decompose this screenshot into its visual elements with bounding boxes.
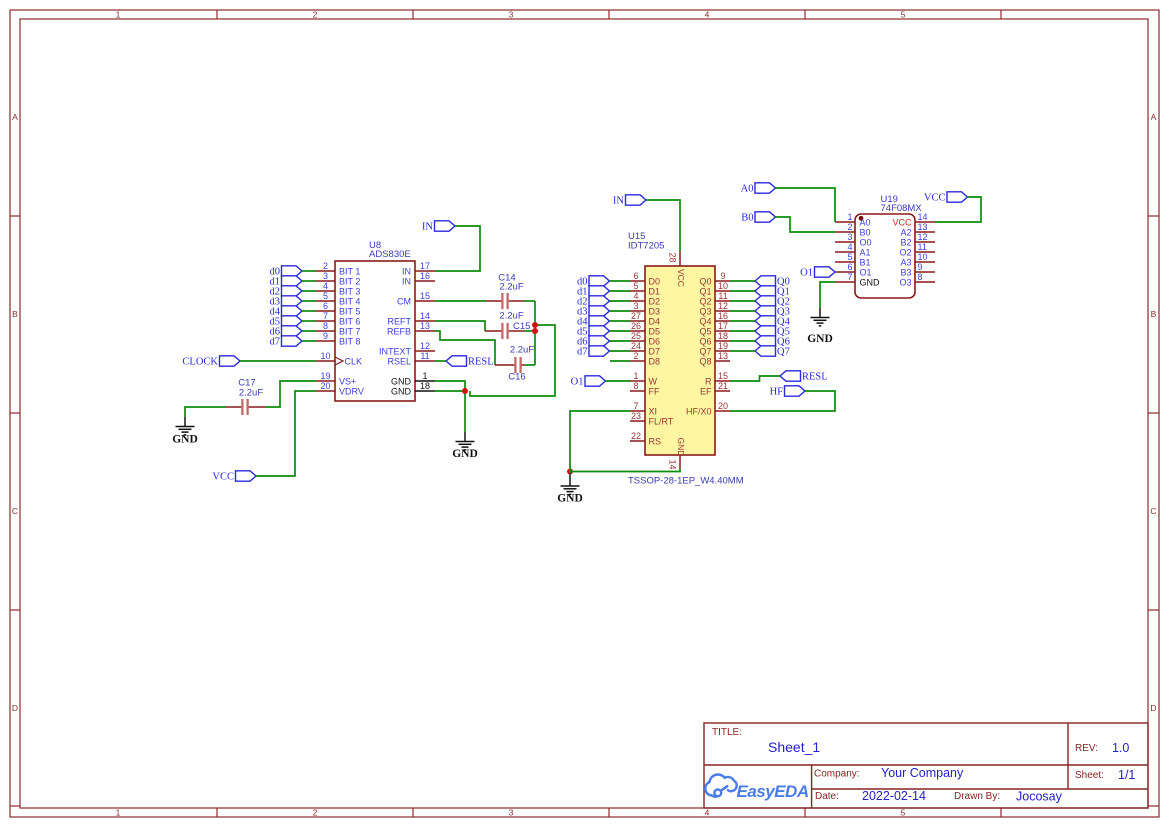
net flag VCC (left) <box>212 471 256 483</box>
svg-text:D5: D5 <box>649 326 661 336</box>
net flag B0 <box>741 212 775 224</box>
svg-text:17: 17 <box>718 321 728 331</box>
ground symbol GND (U19) <box>807 308 833 345</box>
svg-text:RESL: RESL <box>468 357 494 368</box>
net flag d1 (U8) <box>270 276 303 288</box>
svg-text:d7: d7 <box>577 347 588 358</box>
wire C17 left to ground <box>185 407 226 417</box>
U8 pin 10 CLK <box>316 351 362 366</box>
svg-text:RSEL: RSEL <box>387 356 411 366</box>
svg-text:GND: GND <box>391 376 412 386</box>
capacitor C17 <box>226 399 266 415</box>
svg-text:REFT: REFT <box>388 316 412 326</box>
svg-text:BIT 2: BIT 2 <box>339 276 360 286</box>
svg-text:EasyEDA: EasyEDA <box>737 782 809 801</box>
U8 pin 6 BIT 5 <box>316 301 360 316</box>
vertical wire joining C14/C15/C16 <box>534 301 536 365</box>
svg-text:12: 12 <box>918 232 928 242</box>
svg-text:23: 23 <box>631 411 641 421</box>
net flag A0 <box>741 183 776 195</box>
svg-text:14: 14 <box>420 311 430 321</box>
U15 pin 24 D7 <box>630 341 660 356</box>
U15 pin 9 Q0 <box>699 271 730 286</box>
svg-text:GND: GND <box>452 448 478 460</box>
U15 pin 25 D6 <box>630 331 660 346</box>
svg-text:7: 7 <box>633 401 638 411</box>
U15 pin 21 EF <box>700 381 730 396</box>
svg-text:FF: FF <box>649 386 660 396</box>
U8 pin 20 VDRV <box>316 381 364 396</box>
U15 pin 4 D2 <box>630 291 660 306</box>
svg-text:9: 9 <box>918 262 923 272</box>
U19 pin 10 A3 <box>900 252 935 267</box>
net flag Q1 <box>755 286 790 298</box>
U19 pin 4 A1 <box>835 242 871 257</box>
svg-text:18: 18 <box>718 331 728 341</box>
wire O1 to U15 W <box>606 380 631 382</box>
net flag d6 (U15) <box>577 336 610 348</box>
svg-text:HF: HF <box>770 387 784 398</box>
U15 pin 18 Q6 <box>699 331 730 346</box>
net flag HF <box>770 386 805 398</box>
U15 pin 15 R <box>705 371 730 386</box>
svg-text:C15: C15 <box>513 321 530 332</box>
svg-text:Q7: Q7 <box>777 347 790 358</box>
svg-text:B: B <box>12 309 18 319</box>
U8 pin 8 BIT 7 <box>316 321 360 336</box>
wires d0-d7 to U8 <box>302 271 316 341</box>
svg-text:13: 13 <box>718 351 728 361</box>
U19 pin 9 B3 <box>900 262 935 277</box>
svg-text:20: 20 <box>718 401 728 411</box>
net flag d5 (U8) <box>270 316 303 328</box>
net flag CLOCK <box>182 356 240 368</box>
net flag d0 (U15) <box>577 276 610 288</box>
net flag d2 (U15) <box>577 296 610 308</box>
svg-text:17: 17 <box>420 261 430 271</box>
net flag Q7 <box>755 346 790 358</box>
svg-text:D: D <box>1150 703 1156 713</box>
svg-text:D1: D1 <box>649 286 661 296</box>
wire C15 right to node <box>525 330 536 332</box>
svg-text:VCC: VCC <box>676 269 686 287</box>
svg-text:IN: IN <box>402 276 411 286</box>
svg-text:O1: O1 <box>800 268 813 279</box>
svg-text:D: D <box>12 703 18 713</box>
U8 pin 4 BIT 3 <box>316 281 360 296</box>
ground symbol GND (C17) <box>172 417 198 445</box>
svg-text:11: 11 <box>918 242 927 252</box>
svg-text:27: 27 <box>631 311 641 321</box>
net flag O1 (U15) <box>571 376 606 388</box>
svg-text:O1: O1 <box>860 267 872 277</box>
svg-text:Company:: Company: <box>814 769 860 780</box>
wire U15 R to RESL flag <box>730 376 780 381</box>
U19 pin 5 B1 <box>835 252 871 267</box>
U8 pin 12 INTEXT <box>379 341 435 356</box>
svg-text:GND: GND <box>860 277 881 287</box>
svg-text:25: 25 <box>631 331 641 341</box>
junction at 570,471.5 <box>567 469 573 475</box>
svg-text:4: 4 <box>633 291 638 301</box>
net flag d0 (U8) <box>270 266 303 278</box>
net flag Q4 <box>755 316 791 328</box>
svg-text:1: 1 <box>116 9 121 19</box>
net flag d7 (U15) <box>577 346 610 358</box>
svg-text:13: 13 <box>420 321 430 331</box>
svg-text:B3: B3 <box>900 267 911 277</box>
U15 pin 2 D8 <box>630 351 660 366</box>
svg-text:6: 6 <box>633 271 638 281</box>
svg-text:15: 15 <box>718 371 728 381</box>
svg-text:10: 10 <box>718 281 728 291</box>
svg-text:A2: A2 <box>900 227 911 237</box>
U8 pin 9 BIT 8 <box>316 331 360 346</box>
net flag d3 (U15) <box>577 306 610 318</box>
svg-text:18: 18 <box>420 381 430 391</box>
U19 pin 13 A2 <box>900 222 935 237</box>
svg-text:Q3: Q3 <box>699 306 711 316</box>
svg-text:1/1: 1/1 <box>1118 768 1135 782</box>
junction at 535,331 <box>532 328 538 334</box>
net flag d2 (U8) <box>270 286 303 298</box>
svg-text:4: 4 <box>847 242 852 252</box>
svg-text:VCC: VCC <box>212 472 234 483</box>
svg-text:A1: A1 <box>860 247 871 257</box>
svg-text:10: 10 <box>320 351 330 361</box>
wire junction down to ground <box>464 391 466 432</box>
U15 pin 8 FF <box>630 381 660 396</box>
svg-text:2: 2 <box>633 351 638 361</box>
svg-text:1.0: 1.0 <box>1112 741 1129 755</box>
net flag RESL (U8) <box>446 356 494 368</box>
svg-text:BIT 7: BIT 7 <box>339 326 360 336</box>
U8 pin 7 BIT 6 <box>316 311 360 326</box>
svg-text:D4: D4 <box>649 316 661 326</box>
svg-text:XI: XI <box>649 406 658 416</box>
junction at 465,391 <box>462 388 468 394</box>
U15 pin 10 Q1 <box>699 281 730 296</box>
svg-text:2022-02-14: 2022-02-14 <box>862 789 926 803</box>
svg-text:BIT 6: BIT 6 <box>339 316 360 326</box>
svg-text:GND: GND <box>172 433 198 445</box>
U19 pin 7 GND <box>835 272 880 287</box>
svg-text:9: 9 <box>323 331 328 341</box>
svg-text:3: 3 <box>509 807 514 817</box>
svg-text:O1: O1 <box>571 377 584 388</box>
svg-text:6: 6 <box>323 301 328 311</box>
capacitor C16 <box>495 357 525 373</box>
svg-text:GND: GND <box>807 333 833 345</box>
wire U8 pin 15 CM to C14 <box>435 300 486 302</box>
U19 pin 1 A0 <box>835 212 871 227</box>
svg-text:IN: IN <box>402 266 411 276</box>
wire U15 XI to ground junction <box>570 411 630 472</box>
title block <box>704 723 1148 808</box>
svg-text:O2: O2 <box>899 247 911 257</box>
svg-text:GND: GND <box>557 493 583 505</box>
wire U8 pin 1 GND down <box>435 381 465 391</box>
svg-text:BIT 4: BIT 4 <box>339 296 360 306</box>
svg-text:8: 8 <box>633 381 638 391</box>
svg-text:IN: IN <box>613 196 624 207</box>
svg-text:Drawn By:: Drawn By: <box>954 791 1000 802</box>
wire VCC flag to U19 pin 14 <box>935 197 981 222</box>
svg-text:2.2uF: 2.2uF <box>239 388 263 399</box>
svg-text:15: 15 <box>420 291 430 301</box>
svg-text:B0: B0 <box>741 213 753 224</box>
svg-text:19: 19 <box>718 341 728 351</box>
svg-text:9: 9 <box>720 271 725 281</box>
svg-text:22: 22 <box>631 431 641 441</box>
svg-text:12: 12 <box>420 341 430 351</box>
wire ground junction to U15 pin 14 <box>570 469 680 472</box>
svg-text:5: 5 <box>901 9 906 19</box>
svg-text:1: 1 <box>422 371 427 381</box>
net flag Q3 <box>755 306 790 318</box>
svg-text:1: 1 <box>116 807 121 817</box>
wire U8 pin 14 REFT to C15 <box>435 321 485 331</box>
U8 pin 19 VS+ <box>316 371 356 386</box>
svg-text:13: 13 <box>918 222 928 232</box>
svg-text:5: 5 <box>633 281 638 291</box>
svg-text:GND: GND <box>391 386 412 396</box>
svg-text:14: 14 <box>918 212 928 222</box>
wire U8 pin 19 VS+ to C17 <box>266 381 317 407</box>
wire node to GND rail <box>470 325 555 396</box>
svg-text:Q8: Q8 <box>699 356 711 366</box>
svg-text:Sheet_1: Sheet_1 <box>768 739 820 755</box>
net flag d4 (U8) <box>270 306 303 318</box>
svg-text:VS+: VS+ <box>339 376 356 386</box>
svg-text:IN: IN <box>422 222 433 233</box>
U19 pin 11 O2 <box>899 242 935 257</box>
U8 pin 15 CM <box>397 291 435 306</box>
svg-text:Your Company: Your Company <box>881 766 964 780</box>
wire U8 pin 13 REFB to C16 <box>435 331 495 365</box>
svg-text:21: 21 <box>718 381 728 391</box>
wire IN flag to U15 pin 28 <box>646 200 680 251</box>
svg-text:B: B <box>1151 309 1157 319</box>
net flag d6 (U8) <box>270 326 303 338</box>
net flag d3 (U8) <box>270 296 303 308</box>
U15 pin 20 HF/X0 <box>686 401 730 416</box>
svg-text:74F08MX: 74F08MX <box>881 203 923 214</box>
ground symbol GND (U15) <box>557 472 583 505</box>
svg-text:CM: CM <box>397 296 411 306</box>
svg-text:REV:: REV: <box>1075 743 1098 754</box>
svg-text:3: 3 <box>509 9 514 19</box>
svg-text:O0: O0 <box>860 237 872 247</box>
svg-text:Q1: Q1 <box>699 286 711 296</box>
svg-text:BIT 1: BIT 1 <box>339 266 360 276</box>
svg-text:D7: D7 <box>649 346 661 356</box>
op-amp/ADC U8 ADS830E body <box>335 261 415 401</box>
svg-text:7: 7 <box>847 272 852 282</box>
wire U8 pin 20 VDRV to VCC flag <box>256 391 316 476</box>
svg-text:O3: O3 <box>899 277 911 287</box>
svg-text:CLOCK: CLOCK <box>182 357 218 368</box>
net flag VCC (U19) <box>924 192 968 204</box>
svg-text:5: 5 <box>901 807 906 817</box>
net flag d1 (U15) <box>577 286 610 298</box>
svg-text:INTEXT: INTEXT <box>379 346 412 356</box>
svg-text:3: 3 <box>633 301 638 311</box>
svg-text:A0: A0 <box>741 184 754 195</box>
svg-text:d7: d7 <box>270 337 281 348</box>
U15 pin 14 GND (bottom) <box>668 438 686 470</box>
U15 pin 3 D3 <box>630 301 660 316</box>
svg-text:VCC: VCC <box>924 193 946 204</box>
U8 pin 16 IN <box>402 271 435 286</box>
U15 pin 11 Q2 <box>699 291 730 306</box>
wire C14 right to vertical node <box>525 300 536 302</box>
U8 pin 2 BIT 1 <box>316 261 360 276</box>
U15 pin 17 Q5 <box>699 321 730 336</box>
wire IN flag to U8 pin 17 <box>435 226 480 271</box>
U8 pin 18 GND <box>391 381 435 396</box>
U19 pin 3 O0 <box>835 232 872 247</box>
svg-text:11: 11 <box>420 351 429 361</box>
svg-text:FL/RT: FL/RT <box>649 416 674 426</box>
U19 pin 14 VCC <box>892 212 935 227</box>
svg-text:24: 24 <box>631 341 641 351</box>
svg-text:CLK: CLK <box>345 356 363 366</box>
U8 pin 5 BIT 4 <box>316 291 360 306</box>
svg-text:2.2uF: 2.2uF <box>510 345 534 356</box>
wire C16 right to node <box>525 364 535 366</box>
svg-text:2: 2 <box>323 261 328 271</box>
net flag O1 (U19) <box>800 267 835 279</box>
svg-text:C: C <box>12 506 18 516</box>
svg-text:28: 28 <box>668 253 678 263</box>
svg-text:8: 8 <box>323 321 328 331</box>
capacitor C15 <box>485 323 525 339</box>
svg-text:5: 5 <box>323 291 328 301</box>
svg-text:VCC: VCC <box>892 217 912 227</box>
svg-text:4: 4 <box>705 9 710 19</box>
svg-text:A: A <box>12 112 18 122</box>
U8 pin 11 RSEL <box>387 351 435 366</box>
wire U8 pin 18 GND <box>435 390 465 392</box>
svg-text:7: 7 <box>323 311 328 321</box>
wires U15 Q0-Q7 to flags <box>730 281 755 351</box>
svg-text:Q6: Q6 <box>699 336 711 346</box>
svg-text:A3: A3 <box>900 257 911 267</box>
U15 pin 28 VCC (top) <box>668 251 686 287</box>
svg-text:BIT 5: BIT 5 <box>339 306 360 316</box>
svg-text:D2: D2 <box>649 296 661 306</box>
svg-text:RESL: RESL <box>802 372 828 383</box>
svg-text:2: 2 <box>313 9 318 19</box>
svg-text:19: 19 <box>320 371 330 381</box>
svg-text:14: 14 <box>668 460 678 470</box>
svg-text:2: 2 <box>313 807 318 817</box>
net flag Q6 <box>755 336 790 348</box>
U8 pin 13 REFB <box>387 321 435 336</box>
wires d0-d7 to U15 <box>610 281 631 351</box>
svg-text:REFB: REFB <box>387 326 411 336</box>
net flag IN (U8) <box>422 221 455 233</box>
svg-text:TSSOP-28-1EP_W4.40MM: TSSOP-28-1EP_W4.40MM <box>628 476 744 487</box>
U15 pin 12 Q3 <box>699 301 730 316</box>
svg-text:Sheet:: Sheet: <box>1075 770 1104 781</box>
net flag d5 (U15) <box>577 326 610 338</box>
svg-text:20: 20 <box>320 381 330 391</box>
svg-text:A: A <box>1151 112 1157 122</box>
svg-text:26: 26 <box>631 321 641 331</box>
wire B0 flag to U19 pin 2 <box>776 217 836 232</box>
wire HF flag to U15 HF/X0 <box>730 391 835 411</box>
svg-text:12: 12 <box>718 301 728 311</box>
svg-text:10: 10 <box>918 252 928 262</box>
net flag Q0 <box>755 276 790 288</box>
svg-text:D8: D8 <box>649 356 661 366</box>
svg-text:Jocosay: Jocosay <box>1016 790 1063 804</box>
svg-text:C16: C16 <box>508 372 525 383</box>
svg-text:2.2uF: 2.2uF <box>499 282 523 293</box>
svg-text:2: 2 <box>847 222 852 232</box>
svg-text:A0: A0 <box>860 217 871 227</box>
junction at 535,325 <box>532 322 538 328</box>
wire stub at U15 D8 <box>610 360 630 362</box>
svg-text:D3: D3 <box>649 306 661 316</box>
svg-text:Q7: Q7 <box>699 346 711 356</box>
svg-text:D0: D0 <box>649 276 661 286</box>
svg-text:1: 1 <box>633 371 638 381</box>
U15 pin 1 W <box>630 371 658 386</box>
net flag Q5 <box>755 326 790 338</box>
svg-text:D6: D6 <box>649 336 661 346</box>
U15 pin 19 Q7 <box>699 341 730 356</box>
svg-text:11: 11 <box>718 291 727 301</box>
net flag IN (U15) <box>613 195 646 207</box>
svg-text:Q4: Q4 <box>699 316 711 326</box>
svg-text:B1: B1 <box>860 257 871 267</box>
svg-text:ADS830E: ADS830E <box>369 249 411 260</box>
svg-text:VDRV: VDRV <box>339 386 364 396</box>
FIFO U15 IDT7205 body <box>645 266 715 455</box>
U19 pin 1 marker dot <box>859 216 864 221</box>
svg-text:HF/X0: HF/X0 <box>686 406 712 416</box>
svg-text:GND: GND <box>676 438 686 457</box>
U8 CLK clock input symbol <box>335 357 343 365</box>
U15 pin 26 D5 <box>630 321 660 336</box>
svg-text:C: C <box>1150 506 1156 516</box>
svg-text:R: R <box>705 376 712 386</box>
svg-text:5: 5 <box>847 252 852 262</box>
U19 pin 12 B2 <box>900 232 935 247</box>
svg-text:Q2: Q2 <box>699 296 711 306</box>
U8 pin 3 BIT 2 <box>316 271 360 286</box>
svg-text:Date:: Date: <box>815 791 839 802</box>
svg-text:RS: RS <box>649 436 662 446</box>
svg-text:16: 16 <box>718 311 728 321</box>
U15 pin 22 RS <box>630 431 661 446</box>
wire CLOCK to U8 pin 10 <box>240 360 316 362</box>
net flag Q2 <box>755 296 790 308</box>
net flag RESL <box>780 371 828 383</box>
svg-text:3: 3 <box>847 232 852 242</box>
capacitor C14 <box>486 293 525 309</box>
svg-text:Q5: Q5 <box>699 326 711 336</box>
svg-text:EF: EF <box>700 386 712 396</box>
svg-text:BIT 3: BIT 3 <box>339 286 360 296</box>
svg-text:BIT 8: BIT 8 <box>339 336 360 346</box>
svg-text:16: 16 <box>420 271 430 281</box>
svg-text:B2: B2 <box>900 237 911 247</box>
svg-text:TITLE:: TITLE: <box>712 727 742 738</box>
